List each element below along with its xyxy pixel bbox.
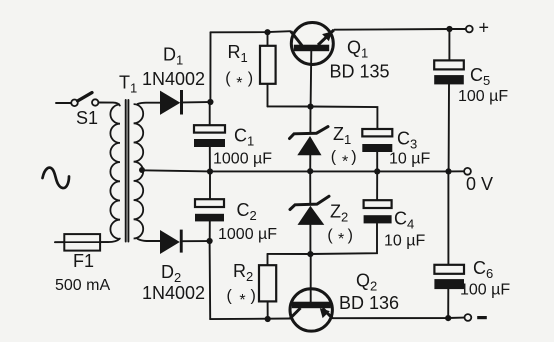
svg-text:R1: R1: [228, 42, 248, 65]
svg-text:100 µF: 100 µF: [460, 282, 510, 299]
svg-text:C5: C5: [470, 65, 490, 88]
svg-text:1N4002: 1N4002: [142, 283, 205, 303]
svg-text:(*): (*): [327, 227, 353, 248]
svg-text:T1: T1: [119, 73, 137, 96]
svg-text:D1: D1: [163, 45, 183, 68]
svg-text:Z2: Z2: [330, 202, 348, 225]
svg-text:Q2: Q2: [356, 271, 377, 294]
svg-text:1000 µF: 1000 µF: [213, 151, 272, 168]
svg-text:C6: C6: [473, 258, 493, 281]
svg-text:(*): (*): [225, 70, 253, 92]
svg-text:Z1: Z1: [333, 124, 351, 147]
svg-text:S1: S1: [76, 108, 98, 128]
svg-text:C4: C4: [394, 209, 414, 232]
svg-text:D2: D2: [161, 262, 181, 285]
svg-text:500 mA: 500 mA: [55, 277, 110, 294]
svg-text:10 µF: 10 µF: [389, 150, 430, 167]
svg-text:(*): (*): [227, 287, 256, 309]
svg-text:100 µF: 100 µF: [458, 88, 508, 105]
svg-text:0 V: 0 V: [466, 174, 493, 194]
svg-text:+: +: [479, 18, 490, 38]
svg-text:(*): (*): [331, 149, 357, 171]
svg-text:F1: F1: [73, 251, 94, 271]
svg-text:C2: C2: [237, 200, 257, 223]
svg-text:1000 µF: 1000 µF: [218, 226, 277, 243]
svg-text:BD 135: BD 135: [330, 62, 390, 82]
svg-text:1N4002: 1N4002: [142, 69, 205, 89]
svg-text:C3: C3: [397, 129, 417, 152]
svg-text:10 µF: 10 µF: [384, 232, 425, 249]
svg-text:C1: C1: [234, 126, 254, 149]
svg-text:R2: R2: [233, 261, 253, 284]
svg-text:BD 136: BD 136: [339, 293, 399, 313]
svg-text:Q1: Q1: [347, 38, 368, 61]
